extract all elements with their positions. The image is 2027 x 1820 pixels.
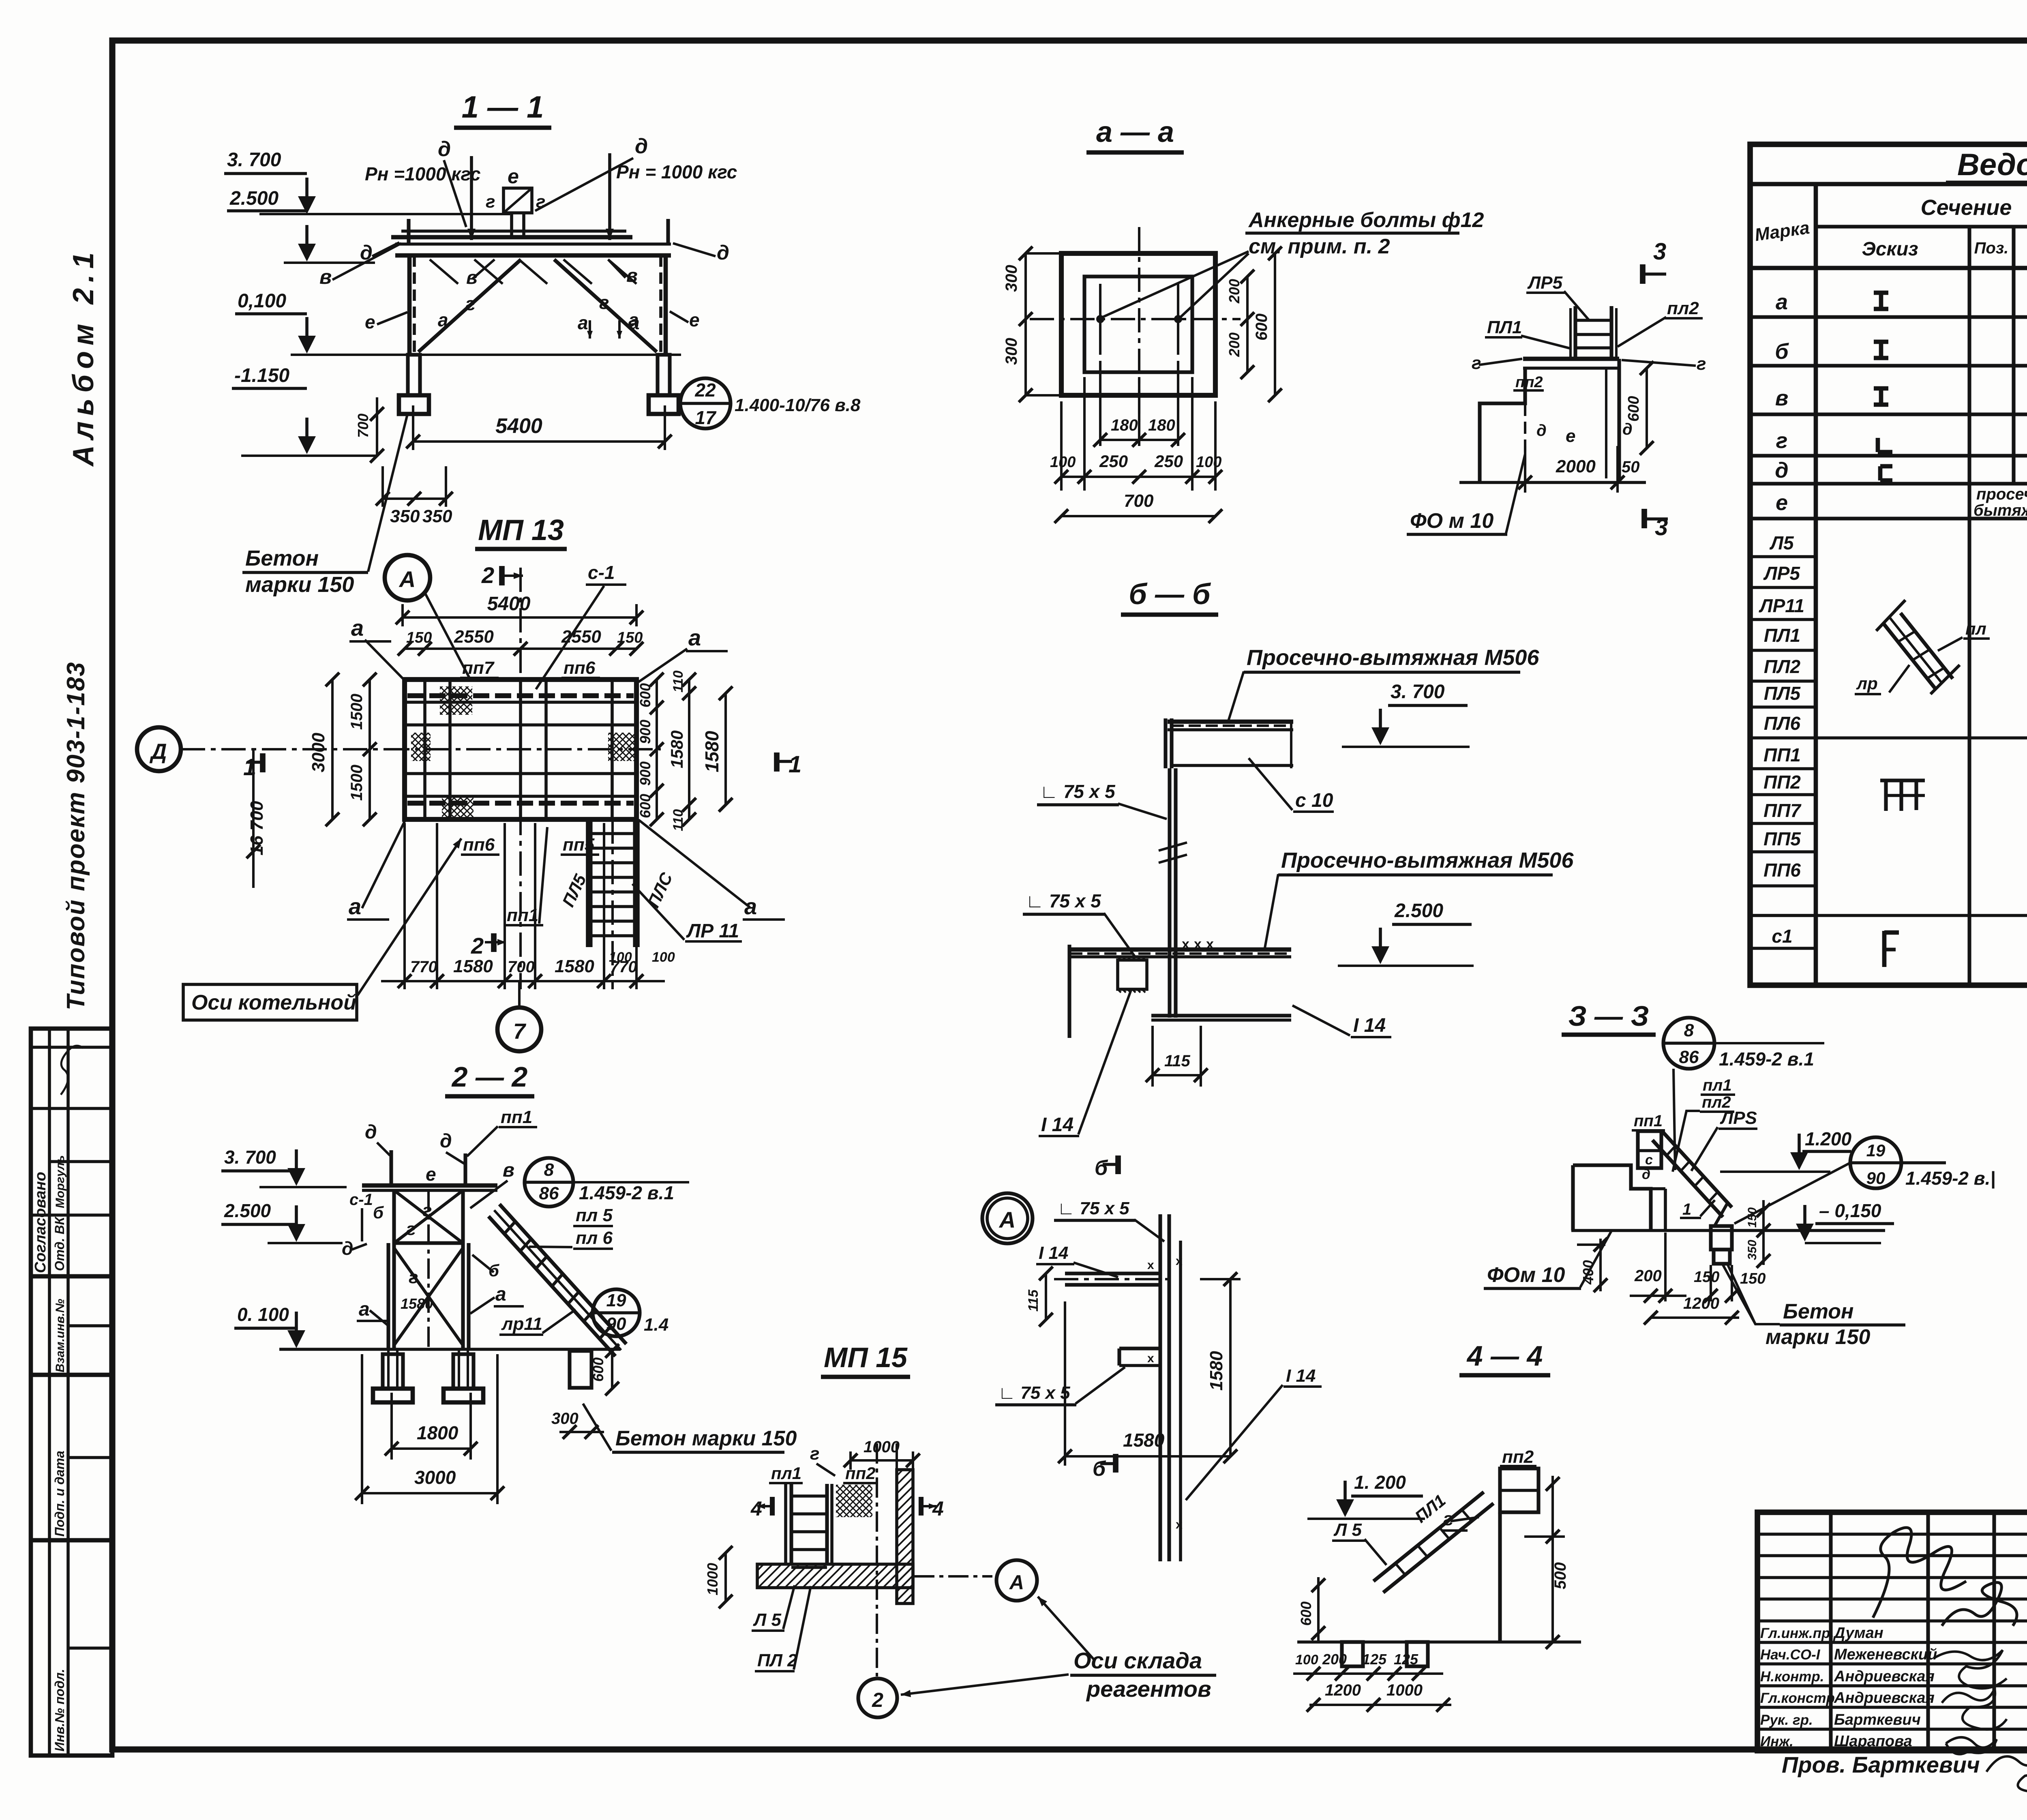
svg-text:Думан: Думан [1833,1625,1883,1642]
svg-text:125: 125 [1362,1651,1387,1668]
view 1-1 railing post left [407,219,410,244]
svg-text:ПП1: ПП1 [1763,744,1801,765]
svg-text:Бетон: Бетон [1783,1300,1853,1323]
svg-text:3000: 3000 [414,1467,456,1488]
svg-text:700: 700 [355,414,371,438]
svg-text:Гл.инж.пр.: Гл.инж.пр. [1760,1625,1834,1641]
svg-text:ПП7: ПП7 [1763,800,1802,821]
svg-text:Pн =1000 кгс: Pн =1000 кгс [365,163,481,184]
svg-text:Отд. ВК: Отд. ВК [52,1216,67,1271]
svg-text:пп6: пп6 [564,658,596,678]
detail б post [1158,1214,1162,1561]
section а-а base plate [1061,253,1215,395]
section 2-2 lower X brace [394,1248,463,1345]
svg-text:Подп. и дата: Подп. и дата [52,1451,67,1537]
plan МП13 right dim 1580 [724,693,727,805]
svg-text:д: д [717,241,729,264]
svg-text:x: x [1147,1258,1154,1272]
svg-text:350: 350 [1746,1240,1759,1260]
svg-text:1.459-2 в.|: 1.459-2 в.| [1905,1168,1995,1189]
section а-а anchor bolt right [1174,315,1182,323]
svg-text:1000: 1000 [1386,1681,1423,1699]
svg-text:ПЛ 2: ПЛ 2 [757,1651,797,1670]
svg-text:Д: Д [150,740,167,764]
svg-text:ЛР11: ЛР11 [1759,595,1804,616]
section 2-2 left footing [373,1389,413,1402]
svg-text:Шарапова: Шарапова [1834,1733,1912,1750]
plan МП13 inner beams [405,701,636,704]
svg-text:x: x [1176,1518,1183,1531]
svg-text:4: 4 [932,1497,944,1520]
svg-text:∟ 75 x 5: ∟ 75 x 5 [1040,781,1116,802]
svg-text:2000: 2000 [1556,457,1596,476]
svg-text:x: x [1206,937,1214,952]
section 2-2 stair rungs [504,1222,515,1234]
detail 3 base break line [1459,481,1646,484]
svg-text:100: 100 [609,950,632,965]
svg-text:З — З: З — З [1568,1000,1649,1032]
svg-text:86: 86 [1679,1047,1699,1067]
view 1-1 column right [659,255,662,355]
svg-text:1500: 1500 [348,765,366,801]
section а-а bolt leader lines [1103,251,1249,317]
detail 3 ladder rungs [1575,319,1611,322]
svg-text:с1: с1 [1772,926,1792,947]
view 1-1 ground line [291,354,681,356]
svg-text:350: 350 [422,506,452,526]
detail 3 left foundation step [1480,368,1525,482]
svg-text:д: д [1642,1167,1650,1182]
detail б bottom bracket [1119,1346,1160,1350]
detail 3 platform beam [1523,357,1619,361]
title block signature squiggles [1942,1582,2017,1626]
table header band line [1750,266,2027,270]
svg-text:а: а [578,312,588,333]
svg-text:Взам.инв.№: Взам.инв.№ [54,1299,67,1372]
svg-text:600: 600 [1253,313,1271,341]
view 1-1 deck hatch [430,259,458,284]
svg-text:600: 600 [637,683,654,707]
svg-text:с: с [1645,1152,1653,1168]
view 1-1 callout circle 22/17 [680,378,731,429]
detail б dim 115 rotated [1045,1273,1047,1320]
detail 3 wall column right [1617,359,1621,480]
svg-text:с-1: с-1 [349,1191,373,1209]
table subheader line Сечение [1816,225,2027,228]
plan МП15 hatch block small [836,1485,872,1517]
svg-text:600: 600 [1625,396,1642,422]
sidebar signature squiggle [61,1046,83,1095]
svg-text:3000: 3000 [309,733,328,772]
svg-text:Пров. Барткевич: Пров. Барткевич [1782,1752,1980,1777]
svg-text:3. 700: 3. 700 [1391,681,1445,703]
plan МП15 leader to А [914,1575,992,1578]
svg-text:600: 600 [637,794,654,818]
svg-text:3. 700: 3. 700 [224,1147,276,1168]
plan МП13 stair ЛР11 [586,819,589,947]
svg-text:Л 5: Л 5 [753,1610,781,1630]
svg-text:Нач.СО-I: Нач.СО-I [1760,1647,1821,1663]
svg-text:150: 150 [406,629,432,646]
svg-text:г: г [1697,354,1706,374]
svg-text:а: а [438,309,448,330]
svg-text:б: б [1095,1156,1108,1180]
section а-а dim 200 200 right [1246,277,1249,372]
detail 3-3 stair rails [1661,1130,1732,1207]
svg-text:Оси склада: Оси склада [1073,1648,1202,1673]
svg-text:250: 250 [1099,452,1128,471]
detail 3-3 stair lower chord [1714,1203,1728,1227]
detail 4-4 base line [1297,1640,1581,1644]
detail А circle [982,1193,1033,1243]
svg-text:1580: 1580 [1123,1430,1165,1451]
svg-text:Просечно-вытяжная М506: Просечно-вытяжная М506 [1281,848,1574,872]
section 2-2 base line [279,1348,620,1351]
svg-text:пп7: пп7 [462,658,495,678]
plan МП15 ladder [784,1484,787,1564]
detail 3-3 leader from circle [1673,1069,1675,1170]
svg-text:∟ 75 x 5: ∟ 75 x 5 [1026,890,1101,911]
plan МП15 dim 1000 top [849,1451,852,1470]
svg-text:x: x [1182,937,1189,952]
svg-text:в: в [503,1160,514,1181]
section 2-2 right footing [444,1389,483,1402]
plan МП13 node circle А [385,555,430,600]
svg-text:19: 19 [1866,1141,1886,1160]
svg-text:2.500: 2.500 [229,188,279,209]
detail 3-3 callout circle 19/90 [1850,1137,1901,1188]
section 2-2 dim 3000 [361,1354,363,1504]
plan МП13 hatched plate 1 [411,686,635,818]
plan МП13 dims 150 2550 2550 150 [405,647,636,650]
svg-text:ПП2: ПП2 [1763,772,1801,793]
svg-text:∟ 75 x 5: ∟ 75 x 5 [1057,1198,1129,1218]
svg-text:1200: 1200 [1683,1295,1719,1312]
svg-text:г: г [422,1200,432,1220]
table row lines upper [1750,315,2027,319]
svg-text:I 14: I 14 [1041,1114,1073,1136]
svg-text:ПП5: ПП5 [1763,828,1801,849]
svg-text:3. 700: 3. 700 [227,149,281,171]
svg-text:17: 17 [695,407,717,428]
svg-text:в: в [1775,386,1789,410]
svg-text:2: 2 [471,933,484,958]
detail 3-3 column pier [1711,1226,1732,1250]
svg-text:ФО м 10: ФО м 10 [1410,509,1493,533]
svg-text:пл 5: пл 5 [576,1205,613,1225]
plan МП13 far left dim 16700 [252,749,255,888]
svg-text:4: 4 [750,1497,762,1520]
svg-text:1: 1 [789,751,801,778]
view 1-1 pier right [658,355,670,395]
section 2-2 top beam [362,1183,497,1188]
detail 4-4 dim 600 rotated [1317,1577,1320,1642]
view 1-1 brace box е [504,188,532,213]
svg-text:ЛР5: ЛР5 [1763,563,1800,584]
svg-text:Гл.констр: Гл.констр [1760,1690,1835,1706]
section 2-2 top railing posts [389,1150,393,1185]
svg-text:ЛР5: ЛР5 [1527,273,1563,293]
svg-text:200: 200 [1322,1651,1347,1668]
plan МП13 axis vertical [519,568,522,989]
section а-а dim 100 250 250 100 [1060,401,1063,491]
svg-text:пп1: пп1 [1634,1112,1663,1130]
svg-text:пп5: пп5 [563,835,595,855]
svg-text:д: д [1536,422,1547,439]
svg-text:МП 13: МП 13 [478,514,564,547]
plan МП13 node circle 7 [497,1008,541,1051]
detail б dim 1580 horizontal [1064,1301,1066,1466]
svg-text:0. 100: 0. 100 [237,1304,289,1325]
svg-text:1580: 1580 [555,956,594,976]
svg-text:г: г [599,292,609,313]
plan МП13 deck beam dashed bottom [407,801,634,806]
svg-text:4 — 4: 4 — 4 [1466,1340,1543,1372]
view 1-1 column left [407,255,412,355]
svg-text:пп2: пп2 [1502,1447,1534,1467]
svg-text:пп2: пп2 [1515,374,1543,391]
table sketch ПП icon [1880,778,1925,782]
table group divider ЛР/ПП [1750,736,2027,740]
section 2-2 centre axis [427,1190,430,1349]
svg-text:125: 125 [1394,1651,1418,1668]
svg-text:Л 5: Л 5 [1333,1520,1362,1540]
svg-text:600: 600 [590,1357,606,1382]
plan МП15 wall hatched [897,1470,913,1603]
svg-text:300: 300 [1003,338,1020,365]
detail 3-3 ground line [1571,1229,1885,1232]
svg-text:2.500: 2.500 [1394,900,1443,922]
svg-text:150: 150 [617,629,643,646]
svg-text:д: д [1622,420,1633,438]
plan МП13 axis horizontal [385,748,661,750]
svg-text:а: а [359,1299,370,1320]
svg-text:Рук. гр.: Рук. гр. [1760,1712,1813,1728]
table Ведомость элементов frame [1750,144,2027,985]
table sketch angle г [1876,438,1880,452]
view 1-1 brace right [554,259,657,352]
svg-text:1.4: 1.4 [644,1315,669,1335]
svg-text:д: д [360,241,373,264]
plan МП13 bottom dims 770 1580 700 1580 770 [403,823,406,989]
svg-text:1000: 1000 [704,1563,721,1595]
svg-text:1580: 1580 [667,731,686,768]
svg-text:115: 115 [1164,1052,1191,1070]
svg-text:600: 600 [1298,1601,1314,1626]
svg-text:А: А [1009,1571,1024,1594]
detail 4-4 right footing [1407,1642,1428,1666]
view 1-1 footing right [649,395,679,414]
svg-text:200: 200 [1634,1267,1662,1285]
detail 4-4 post [1498,1512,1502,1642]
svg-text:Инж.: Инж. [1760,1734,1793,1749]
sidebar stamp table [31,1029,112,1756]
plan МП13 right dims 600 900 900 600 [656,680,658,819]
svg-text:д: д [342,1238,353,1259]
svg-text:а: а [495,1284,506,1305]
svg-text:г: г [1776,429,1788,453]
svg-text:ПЛ5: ПЛ5 [1764,683,1801,704]
detail 3 ladder rails [1573,306,1577,359]
section б-б dim 115 [1151,1026,1154,1087]
svg-text:2: 2 [481,562,494,588]
svg-text:ФОм 10: ФОм 10 [1487,1263,1565,1287]
view 1-1 railing post right [666,219,670,244]
svg-text:2: 2 [872,1689,883,1711]
svg-text:300: 300 [551,1410,579,1428]
view 1-1 brace left [418,259,521,352]
svg-text:50: 50 [1622,458,1640,476]
table sketch ЛР ladder icon [1883,624,1936,689]
svg-text:е: е [689,309,700,330]
view 1-1 platform beam [401,229,626,233]
table divider above С1 [1750,914,2027,917]
detail 4-4 box ПП2 [1500,1468,1538,1512]
section а-а centerline horizontal [1030,318,1241,320]
svg-text:Бетон марки 150: Бетон марки 150 [615,1427,797,1450]
svg-text:Андриевская: Андриевская [1834,1689,1935,1706]
section 2-2 left pier [383,1354,403,1389]
detail 3 dim 2000 [1524,446,1526,493]
svg-text:300: 300 [1003,265,1020,292]
detail 3-3 dims 150 350 rotated [1762,1200,1765,1265]
svg-text:е: е [365,311,375,332]
svg-text:г: г [1443,1508,1453,1529]
table sketch I-beam а [1874,291,1888,295]
svg-text:7: 7 [513,1019,527,1044]
table column Эскиз right [1967,227,1971,985]
plan МП15 node circle 2 [858,1679,897,1717]
svg-text:ПЛ6: ПЛ6 [1764,713,1801,734]
table title row line [1750,182,2027,187]
svg-text:Сечение: Сечение [1921,195,2012,220]
svg-text:770: 770 [410,958,437,976]
svg-text:а: а [349,894,361,919]
section а-а dim 180 180 [1099,361,1101,446]
svg-text:пп1: пп1 [507,905,538,925]
section а-а anchor bolt left [1096,315,1104,323]
section а-а dim 300 300 left [1024,253,1027,395]
svg-text:100: 100 [652,950,675,965]
svg-text:е: е [508,165,519,188]
plan МП13 outline [405,680,636,819]
svg-text:Альбом 2.1: Альбом 2.1 [67,247,100,467]
svg-text:д: д [438,137,451,161]
svg-text:Просечно-вытяжная М506: Просечно-вытяжная М506 [1247,645,1539,670]
svg-text:реагентов: реагентов [1086,1676,1211,1702]
section 2-2 callout circle 19/90 [593,1289,640,1336]
svg-text:а — а: а — а [1096,116,1174,148]
svg-text:100: 100 [1196,454,1221,471]
plan МП13 inner columns [423,680,426,819]
svg-text:б — б: б — б [1129,578,1211,611]
svg-text:x: x [1147,1352,1154,1365]
svg-text:а: а [688,625,701,650]
svg-text:200: 200 [1226,332,1243,357]
svg-text:x: x [1194,937,1202,952]
svg-text:г: г [486,192,495,212]
view 1-1 dim 5400 [412,405,414,450]
svg-text:900: 900 [637,720,654,744]
svg-text:110: 110 [671,671,686,692]
svg-text:пл 6: пл 6 [576,1228,613,1248]
svg-text:I 14: I 14 [1353,1015,1386,1036]
plan МП15 axis vertical [876,1443,878,1676]
svg-text:е: е [1776,491,1788,515]
view 1-1 dims 350 350 [383,497,447,500]
svg-text:8: 8 [544,1160,554,1180]
svg-text:лр11: лр11 [501,1314,542,1334]
svg-text:110: 110 [671,809,686,831]
svg-text:Согласовано: Согласовано [32,1172,49,1273]
svg-text:22: 22 [694,379,716,401]
svg-text:1.459-2 в.1: 1.459-2 в.1 [1719,1048,1814,1070]
section б-б bottom flange [1151,1014,1291,1017]
detail 3-3 dim 400 rotated [1599,1239,1602,1291]
detail 3-3 callout circle 8/86 [1663,1018,1714,1069]
table column Поз right [2012,227,2015,484]
section а-а inner plate [1084,277,1192,372]
svg-text:е: е [426,1164,436,1185]
svg-text:лр: лр [1856,674,1878,693]
svg-text:а: а [629,312,640,333]
detail 3-3 column top box с [1638,1131,1661,1168]
svg-text:1: 1 [243,754,256,780]
plan МП13 deck beam dashed top [407,693,634,698]
svg-text:Меженевский: Меженевский [1834,1646,1937,1663]
svg-text:500: 500 [1551,1562,1569,1589]
detail 3-3 foundation block [1573,1165,1651,1230]
svg-text:Ведомость элементов: Ведомость элементов [1957,148,2027,182]
svg-text:16 700: 16 700 [247,801,267,855]
svg-text:б: б [1093,1457,1106,1481]
svg-text:I 14: I 14 [1039,1243,1068,1263]
svg-text:1200: 1200 [1325,1681,1361,1699]
svg-text:900: 900 [637,761,654,786]
svg-text:г: г [1472,353,1481,373]
svg-text:Анкерные болты ф12: Анкерные болты ф12 [1248,208,1484,232]
svg-text:пп2: пп2 [845,1464,876,1483]
svg-text:– 0,150: – 0,150 [1819,1200,1881,1221]
table sketch channel д [1878,466,1883,480]
svg-text:250: 250 [1154,452,1183,471]
svg-text:180: 180 [1111,416,1138,434]
title block left rows [1757,1533,2027,1536]
svg-text:2550: 2550 [561,627,601,647]
svg-text:90: 90 [1866,1168,1886,1188]
plan МП15 dim 1000 left [724,1553,727,1601]
svg-text:ЛР 11: ЛР 11 [686,920,739,942]
section б-б top platform [1168,720,1293,724]
section б-б lower platform [1068,948,1291,952]
plan МП13 node circle Д [137,727,181,771]
svg-text:86: 86 [539,1183,559,1203]
svg-text:А: А [399,566,416,592]
svg-text:1 — 1: 1 — 1 [462,90,544,124]
svg-text:Моргуль: Моргуль [54,1155,67,1208]
svg-text:ПЛ1: ПЛ1 [1487,317,1522,337]
section 2-2 stair footing [570,1351,591,1388]
big signature over rows [1873,1528,1966,1618]
svg-text:Н.контр.: Н.контр. [1760,1669,1824,1685]
section 2-2 brace box е [392,1190,396,1243]
table row lines lower left col [1750,555,1816,558]
svg-text:см. прим. п. 2: см. прим. п. 2 [1249,235,1390,258]
svg-text:19: 19 [606,1291,626,1310]
plan МП13 dim 5400 top [401,604,404,626]
svg-text:марки 150: марки 150 [1766,1325,1871,1349]
svg-text:1. 200: 1. 200 [1354,1472,1406,1493]
